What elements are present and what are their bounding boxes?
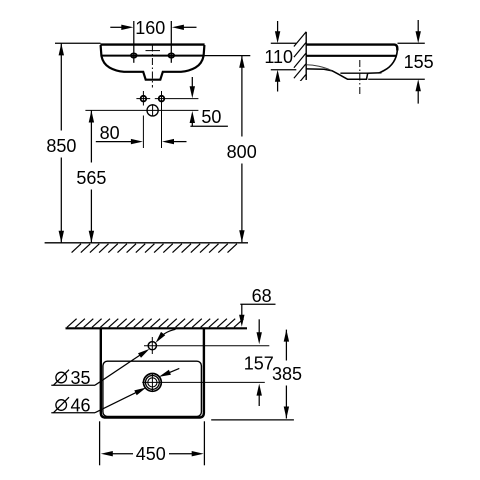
dimension 800: extension line from basin rim to the right xyxy=(205,55,251,57)
label diameter 35: symbol and text xyxy=(56,372,67,383)
front view: floor hatching xyxy=(72,244,237,253)
dimension 800: dimension line with outward arrows (floor to rim line) xyxy=(241,56,243,137)
dimension 155: bottom extension line xyxy=(368,78,425,80)
dimension 160: left arrow xyxy=(110,26,122,28)
label diameter 35: underline xyxy=(51,384,95,386)
front view: drain hole circle with cross xyxy=(85,109,198,111)
dimension 50: shelf line under label xyxy=(190,125,228,127)
dimension 155: bottom arrow xyxy=(417,91,419,104)
dimension 68: arrow down to wall xyxy=(241,304,243,316)
front view: right faucet mounting hole with cross xyxy=(155,98,199,100)
label diameter 46: leader continuation with arrow xyxy=(169,368,180,373)
dimension 157: bottom arrow (to drain line) xyxy=(258,394,260,406)
svg-text:110: 110 xyxy=(264,47,293,67)
side view: wall line xyxy=(305,32,307,80)
front view: right mounting hole xyxy=(168,53,174,57)
side view: drain centerline (dash-dot) xyxy=(359,60,361,95)
front view: left mounting hole xyxy=(131,53,137,57)
dimension 450: left extension line xyxy=(99,421,101,465)
dimension 160: extension line right (through right mounting hole) xyxy=(170,21,172,63)
plan view: wall hatching xyxy=(67,319,244,328)
dimension 565: dimension line with outward arrows (floor to drain centre) xyxy=(90,111,92,163)
dimension 155: top extension line xyxy=(398,42,425,44)
svg-text:450: 450 xyxy=(136,444,166,464)
front view: basin outline (washbasin front elevation) xyxy=(100,45,204,80)
dimension 160: right arrow xyxy=(183,26,197,28)
svg-text:850: 850 xyxy=(46,136,76,156)
svg-text:565: 565 xyxy=(76,168,106,188)
dimension 385: dimension line with inward arrows (wall to basin front) xyxy=(285,330,287,361)
dimension 68: shelf line and label xyxy=(240,303,275,305)
plan view: faucet hole circle with cross xyxy=(144,345,269,347)
front view: top datum line (top edge of basin level) xyxy=(55,42,101,44)
svg-text:385: 385 xyxy=(272,364,302,384)
dimension 50: bottom arrow (to drain line) xyxy=(191,122,193,127)
dimension 110: bottom extension line xyxy=(271,69,297,71)
dimension 50: top arrow (to faucet hole line) xyxy=(191,77,193,88)
label diameter 46: symbol and text xyxy=(56,400,67,411)
svg-text:155: 155 xyxy=(404,52,434,72)
dimension 385: bottom extension line xyxy=(211,419,294,421)
dimension 80: left arrow xyxy=(96,141,132,143)
label diameter 35: leader line with arrow to faucet hole xyxy=(95,354,142,385)
label diameter 35: leader continuation from wall with arrow xyxy=(158,329,175,340)
plan view: drain hole concentric circles with cross xyxy=(142,381,265,383)
svg-text:50: 50 xyxy=(201,107,221,127)
svg-text:160: 160 xyxy=(135,18,165,38)
front view: left faucet mounting hole with cross xyxy=(136,98,150,100)
dimension 157: top arrow (to faucet hole line) xyxy=(258,319,260,333)
svg-text:68: 68 xyxy=(252,286,272,306)
label diameter 46: leader line with arrow to drain hole xyxy=(95,392,138,413)
dimension 450: dimension line with outward arrows xyxy=(111,453,133,455)
label diameter 46: underline xyxy=(51,412,95,414)
plan view: basin inner rim outline xyxy=(103,361,201,416)
svg-text:800: 800 xyxy=(227,142,257,162)
svg-text:80: 80 xyxy=(100,123,120,143)
plan view: basin outer outline xyxy=(101,329,204,418)
dimension 80: right arrow xyxy=(173,141,187,143)
plan view: wall line xyxy=(66,327,248,329)
front view: center cross mark at basin top xyxy=(146,50,161,52)
dimension 110: bottom arrow xyxy=(277,81,279,92)
dimension 450: right extension line xyxy=(203,421,205,465)
dimension 850: dimension line with outward arrows (floor to basin top) xyxy=(60,43,62,130)
side view: basin profile outline xyxy=(306,45,397,80)
dimension 110: top extension line xyxy=(271,42,297,44)
front view: floor line xyxy=(45,242,248,244)
svg-text:157: 157 xyxy=(244,354,274,374)
dimension 160: extension line left (through left mounting hole) xyxy=(133,21,135,63)
dimension 155: top arrow xyxy=(417,20,419,33)
dimension 110: top arrow xyxy=(277,21,279,33)
front view: vertical centerline (dash-dot) through basin and drain fitting xyxy=(151,45,153,88)
